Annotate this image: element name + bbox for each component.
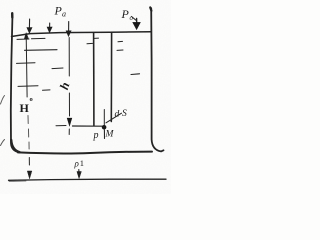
vessel left corner emphasis bbox=[11, 140, 19, 152]
pressure arrow pa 1 bbox=[28, 19, 30, 29]
water level long dash left bbox=[25, 49, 58, 52]
vessel left wall bbox=[11, 14, 19, 153]
H0 tick 1 bbox=[17, 62, 36, 65]
ground line left doubling bbox=[9, 180, 26, 183]
pressure arrow pa 2 bbox=[49, 23, 51, 28]
bottom arrow right label rho1 bbox=[74, 158, 85, 169]
water level dash right bbox=[117, 49, 123, 51]
H0 dash below vessel bbox=[28, 158, 30, 166]
H0 tick 2 bbox=[18, 85, 38, 88]
label p at M bbox=[93, 130, 99, 141]
point M bbox=[102, 125, 107, 130]
bottom arrow right bbox=[78, 170, 80, 173]
label H0 bbox=[20, 96, 33, 115]
label p_a bbox=[54, 4, 67, 19]
level line at point M bbox=[56, 125, 66, 127]
h dash below arrow bbox=[68, 129, 70, 135]
water dash right-mid bbox=[131, 73, 140, 76]
water dash mid-left bbox=[52, 67, 63, 70]
dimension line H0 bbox=[25, 37, 28, 98]
connector from label to bold arrow bbox=[132, 17, 137, 21]
H0 bottom arrowhead bbox=[27, 171, 31, 179]
tube axis short line bbox=[103, 110, 105, 126]
point M axis below bbox=[103, 130, 105, 139]
vessel left wall top blob bbox=[11, 13, 14, 17]
label h (rotated) bbox=[57, 80, 72, 91]
label M bbox=[105, 130, 115, 140]
vessel right wall top blob bbox=[150, 7, 151, 10]
H0 top arrowhead bbox=[24, 33, 28, 39]
edge artifact mark lower bbox=[1, 140, 5, 146]
surface dash marks bbox=[17, 38, 29, 40]
h bottom arrowhead bbox=[67, 118, 72, 126]
edge artifact mark upper bbox=[1, 96, 5, 105]
label P_b top right bbox=[121, 7, 134, 22]
pressure arrow pa 3 bbox=[68, 22, 70, 32]
bold pressure arrow right bbox=[136, 19, 138, 24]
water dash lower-left bbox=[43, 89, 51, 91]
label dS bbox=[115, 109, 128, 120]
vessel bottom bbox=[18, 152, 152, 154]
tube left wall bbox=[93, 33, 95, 126]
liquid surface line bbox=[12, 32, 152, 37]
scan texture (decorative) bbox=[0, 0, 1, 1]
H0 dashed continuation bbox=[28, 116, 29, 150]
ground datum line bbox=[9, 179, 167, 180]
tube right wall bbox=[110, 33, 112, 122]
dimension line h bbox=[68, 38, 70, 117]
vessel right wall bbox=[151, 8, 163, 151]
leader line to dS bbox=[106, 113, 122, 123]
